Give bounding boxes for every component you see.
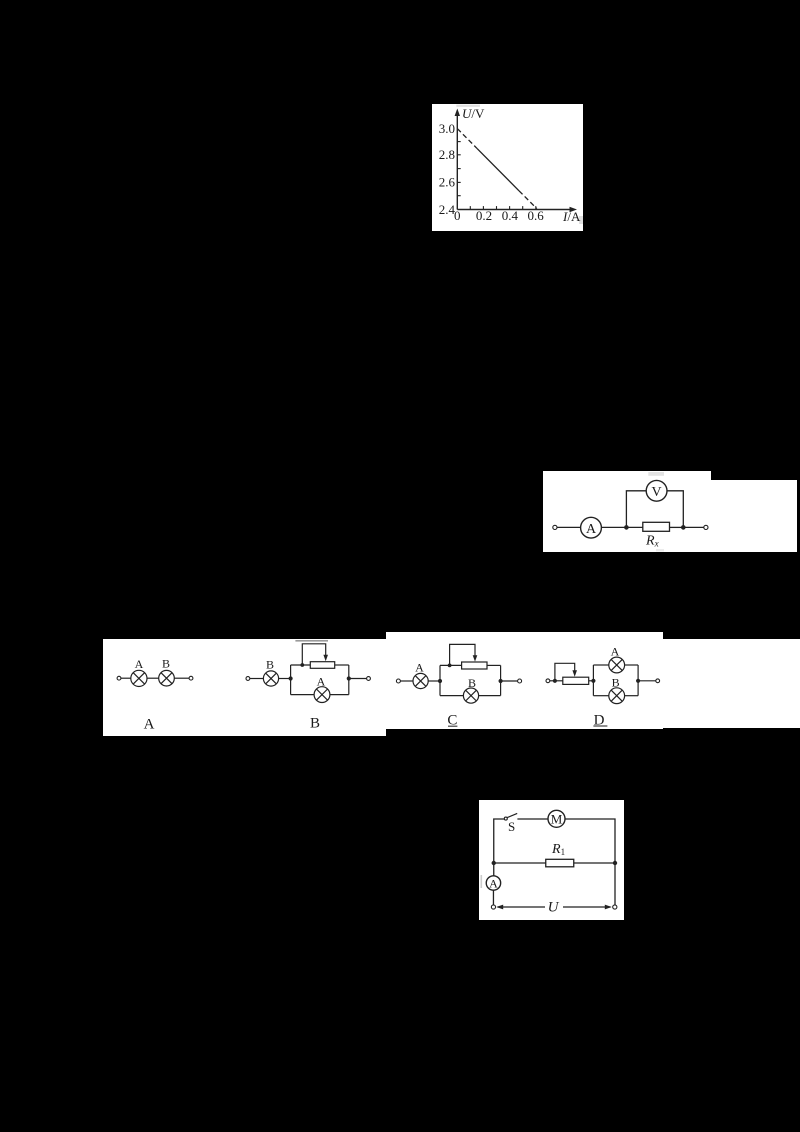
middle rail to resistor <box>494 862 546 864</box>
top rail to lamp A <box>593 664 608 666</box>
frame right vertical <box>500 665 502 695</box>
x axis arrow <box>570 207 578 212</box>
figure 1: U-I graph panel <box>432 104 583 231</box>
motor M <box>548 810 565 827</box>
svg-text:0: 0 <box>454 208 461 223</box>
U arrow left segment <box>498 906 546 908</box>
top-left wire to switch <box>494 819 504 863</box>
underline below C <box>448 726 457 727</box>
wire to right terminal <box>174 677 189 679</box>
svg-text:2.4: 2.4 <box>439 202 456 217</box>
lamp A <box>413 673 428 688</box>
grey smudge top <box>295 640 328 642</box>
rheostat rectangle <box>310 662 334 669</box>
figure 3 panel 2: options C and D <box>386 632 663 729</box>
right terminal <box>704 525 708 529</box>
node left of parallel <box>289 676 293 680</box>
figure 4: motor circuit panel <box>479 800 624 920</box>
voltmeter V <box>646 480 667 501</box>
x axis <box>457 209 573 211</box>
bottom rail after lamp <box>330 694 349 696</box>
wire lamp to node <box>279 678 291 680</box>
wire voltmeter to right down <box>667 491 683 528</box>
svg-text:A: A <box>586 522 597 537</box>
grey smudge top <box>456 105 480 107</box>
grey smudge top <box>648 472 664 476</box>
switch S lever <box>507 813 517 817</box>
wire <box>121 677 131 679</box>
wire rheostat to node <box>589 680 594 682</box>
svg-text:0.4: 0.4 <box>502 208 519 223</box>
wire to right terminal <box>349 678 367 680</box>
svg-text:3.0: 3.0 <box>439 121 455 136</box>
svg-text:A: A <box>489 877 498 891</box>
node right of parallel <box>347 676 351 680</box>
svg-text:2.6: 2.6 <box>439 175 456 190</box>
blank white panel right of figure 2 <box>711 480 797 552</box>
U arrow right segment <box>563 906 611 908</box>
wire to right terminal <box>638 680 656 682</box>
svg-text:0.2: 0.2 <box>476 208 492 223</box>
resistor R1 <box>546 859 574 867</box>
slider wire with arrow <box>555 663 575 681</box>
y axis <box>456 113 458 210</box>
svg-text:A: A <box>611 645 620 659</box>
left terminal <box>553 525 557 529</box>
x axis ticks (0.1 A spacing, inside) <box>470 206 536 209</box>
node right of parallel <box>636 679 640 683</box>
node left junction <box>624 525 629 530</box>
y axis arrow <box>455 109 460 117</box>
node on top rail <box>448 664 452 668</box>
wire node to right terminal <box>683 526 704 528</box>
lamp B <box>263 671 278 686</box>
wire up left branch <box>626 491 646 528</box>
wire left terminal to ammeter <box>557 526 581 528</box>
svg-text:2.8: 2.8 <box>439 147 455 162</box>
right wire down to bottom terminal <box>614 863 616 905</box>
figure 3 panel 3: empty white box right <box>663 639 800 728</box>
resistor Rx <box>643 522 670 531</box>
node left of parallel <box>438 679 442 683</box>
parallel frame left vertical <box>290 665 292 695</box>
wire node to resistor <box>626 526 642 528</box>
svg-text:S: S <box>508 819 515 834</box>
svg-text:R1: R1 <box>551 842 565 857</box>
node on top rail <box>300 663 304 667</box>
svg-text:B: B <box>162 657 170 671</box>
svg-text:I/A: I/A <box>562 209 581 224</box>
wire node to rheostat <box>555 680 563 682</box>
bottom rail to lamp <box>440 695 463 697</box>
option C: left terminal <box>396 679 400 683</box>
bottom rail to lamp B <box>593 695 608 697</box>
frame right vertical <box>637 665 639 696</box>
svg-text:B: B <box>266 658 274 672</box>
grey smudge bottom right <box>579 216 583 224</box>
svg-text:V: V <box>652 485 662 500</box>
figure 2: ammeter-voltmeter-Rx circuit panel <box>543 471 711 552</box>
right terminal <box>518 679 522 683</box>
lamp A bottom branch <box>314 687 330 703</box>
bottom right terminal <box>613 905 617 909</box>
frame left vertical <box>439 665 441 695</box>
U(I) line solid middle <box>477 148 519 190</box>
svg-text:A: A <box>135 657 144 671</box>
rheostat rectangle <box>563 677 589 684</box>
wire <box>400 680 413 682</box>
slider wire with arrow <box>302 644 325 665</box>
right terminal <box>367 677 371 681</box>
wire switch to motor <box>517 818 548 820</box>
bottom rail after lamp <box>625 695 639 697</box>
svg-text:U: U <box>548 900 560 916</box>
node left middle <box>492 861 496 865</box>
top rail after rheostat <box>335 664 349 666</box>
node right middle <box>613 861 617 865</box>
lamp A <box>131 670 147 686</box>
svg-text:M: M <box>551 812 563 827</box>
switch S pivot <box>504 817 507 820</box>
wire lamp to node <box>428 680 440 682</box>
option A: left terminal <box>117 676 121 680</box>
grey smudge left <box>481 875 483 888</box>
top rail to rheostat <box>291 664 311 666</box>
rheostat rectangle <box>462 662 487 669</box>
wire resistor to node <box>670 526 684 528</box>
wire ammeter to node <box>601 526 626 528</box>
bottom rail to lamp <box>291 694 315 696</box>
bottom left terminal <box>491 905 495 909</box>
wire terminal to node <box>550 680 555 682</box>
underline below D <box>593 725 607 726</box>
right terminal <box>189 676 193 680</box>
figure 3 panel 1: options A and B <box>103 639 386 736</box>
wire <box>250 678 264 680</box>
wire between lamps <box>147 677 159 679</box>
node right of parallel <box>499 679 503 683</box>
bottom rail after lamp <box>479 695 501 697</box>
node before rheostat <box>553 679 557 683</box>
U(I) line dashed start <box>457 129 477 149</box>
svg-text:A: A <box>415 661 424 675</box>
wire ammeter to bottom terminal <box>492 890 494 905</box>
wire motor to right corner and down <box>565 819 615 863</box>
lamp A top branch <box>609 657 625 673</box>
node left of parallel <box>591 679 595 683</box>
option B: left terminal <box>246 677 250 681</box>
frame left vertical <box>592 665 594 696</box>
ammeter A <box>486 876 500 891</box>
top rail after lamp <box>625 664 639 666</box>
U(I) line dashed end <box>519 191 537 209</box>
option D: left terminal <box>546 679 550 683</box>
right terminal <box>656 679 660 683</box>
grey smudge bottom <box>656 549 664 552</box>
lamp B bottom branch <box>609 688 625 704</box>
ammeter A <box>581 517 602 538</box>
node right junction <box>681 525 686 530</box>
wire to right terminal <box>501 680 518 682</box>
top rail after rheostat <box>487 664 501 666</box>
svg-text:A: A <box>144 717 155 733</box>
lamp B bottom branch <box>463 688 478 703</box>
y axis ticks (0.1 V spacing, inside) <box>457 142 460 196</box>
lamp B <box>159 670 175 686</box>
svg-text:U/V: U/V <box>462 106 485 121</box>
left wire down to ammeter <box>493 863 495 876</box>
slider wire with arrow <box>450 644 475 665</box>
svg-text:B: B <box>310 716 320 732</box>
top rail to rheostat <box>440 664 462 666</box>
svg-text:A: A <box>317 675 326 689</box>
middle rail after resistor <box>574 862 615 864</box>
svg-text:Rx: Rx <box>645 534 659 549</box>
svg-text:B: B <box>612 676 620 690</box>
svg-text:0.6: 0.6 <box>527 208 544 223</box>
svg-text:B: B <box>468 676 476 690</box>
right vertical of frame <box>348 665 350 695</box>
